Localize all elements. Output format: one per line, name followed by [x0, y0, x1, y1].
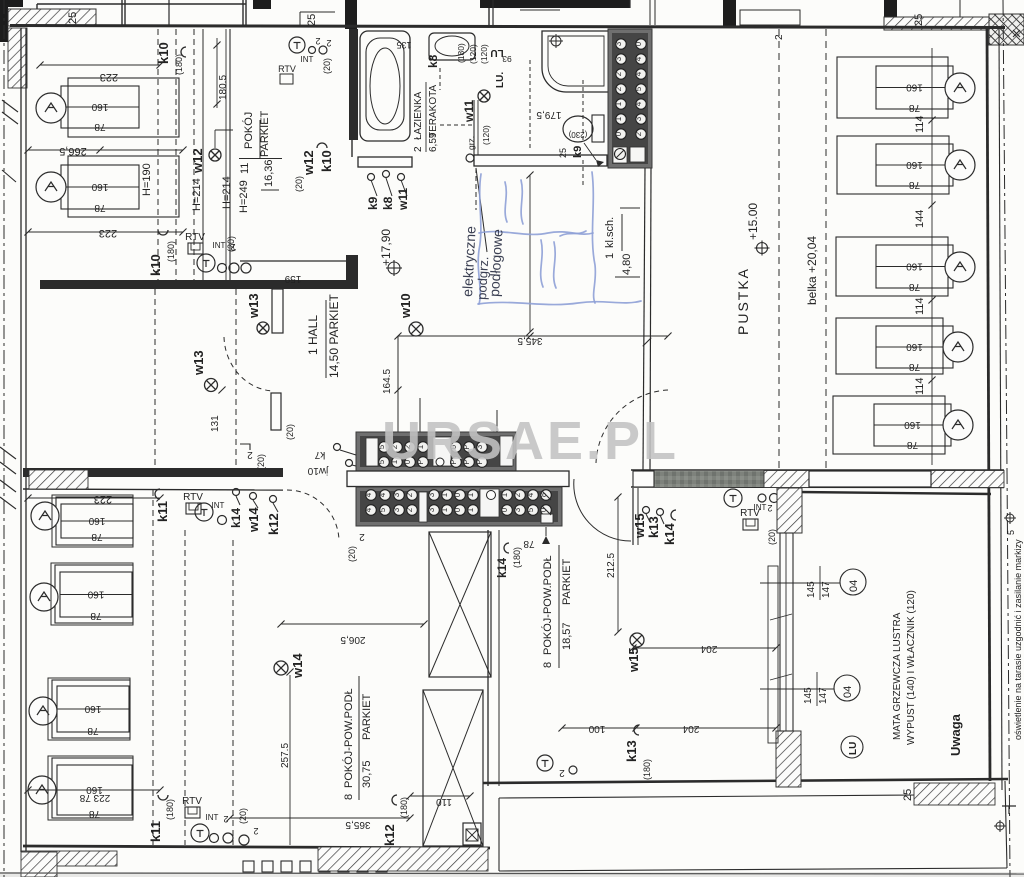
svg-text:LU: LU [848, 742, 859, 755]
svg-text:93: 93 [502, 54, 512, 64]
svg-text:k9: k9 [366, 196, 380, 210]
svg-text:4: 4 [364, 507, 373, 512]
svg-text:3: 3 [427, 492, 436, 497]
svg-text:RTV: RTV [185, 232, 205, 243]
svg-text:4: 4 [634, 56, 643, 61]
svg-text:131: 131 [210, 415, 221, 432]
svg-text:0: 0 [453, 492, 462, 497]
svg-text:1: 1 [466, 507, 475, 512]
svg-text:URSAE.PL: URSAE.PL [382, 411, 679, 471]
svg-text:223: 223 [99, 227, 117, 239]
svg-text:0: 0 [614, 131, 623, 136]
svg-text:159: 159 [284, 273, 301, 284]
svg-text:114: 114 [914, 115, 926, 133]
svg-text:(180): (180) [642, 759, 652, 780]
svg-text:3: 3 [392, 507, 401, 512]
svg-text:179,5: 179,5 [536, 109, 561, 120]
svg-text:w12: w12 [301, 150, 316, 176]
svg-text:k14: k14 [495, 558, 509, 578]
svg-text:5: 5 [634, 86, 643, 91]
svg-text:206,5: 206,5 [340, 634, 365, 645]
svg-text:100: 100 [588, 723, 605, 734]
svg-text:(230): (230) [568, 130, 587, 139]
svg-text:2: 2 [767, 503, 772, 513]
svg-text:78: 78 [909, 179, 921, 190]
svg-text:2: 2 [634, 131, 643, 136]
svg-text:1: 1 [440, 492, 449, 497]
svg-text:INT: INT [754, 503, 767, 512]
svg-text:RTV: RTV [182, 796, 202, 807]
svg-text:1: 1 [614, 101, 623, 106]
svg-text:160: 160 [906, 82, 923, 93]
svg-text:w11: w11 [396, 188, 410, 211]
svg-text:5: 5 [1006, 530, 1016, 535]
svg-text:110: 110 [436, 796, 452, 807]
svg-text:INT: INT [301, 55, 314, 64]
svg-text:135: 135 [396, 40, 411, 50]
svg-text:04: 04 [842, 686, 854, 698]
svg-text:kl.sch.: kl.sch. [604, 217, 616, 248]
svg-text:212.5: 212.5 [606, 553, 617, 578]
svg-text:w12: w12 [190, 148, 205, 174]
svg-text:30,75: 30,75 [361, 760, 373, 788]
svg-text:78: 78 [909, 361, 921, 372]
svg-text:2: 2 [247, 449, 253, 460]
svg-text:PARKIET: PARKIET [259, 110, 271, 157]
svg-text:k14: k14 [662, 523, 677, 545]
svg-text:180.5: 180.5 [218, 75, 229, 100]
svg-text:2: 2 [559, 767, 565, 778]
svg-text:(180): (180) [174, 54, 184, 75]
svg-text:H=214: H=214 [221, 176, 233, 209]
svg-text:ŁAZIENKA: ŁAZIENKA [413, 91, 424, 140]
svg-text:160: 160 [88, 515, 105, 526]
svg-text:belka +20,04: belka +20,04 [805, 236, 819, 305]
svg-text:78: 78 [94, 121, 106, 132]
svg-text:TERAKOTA: TERAKOTA [428, 85, 439, 138]
svg-text:+17,90: +17,90 [379, 229, 393, 266]
svg-text:LU: LU [490, 47, 503, 58]
svg-text:8: 8 [343, 794, 355, 800]
svg-text:k10: k10 [319, 150, 334, 172]
svg-text:78: 78 [89, 808, 101, 819]
svg-text:25: 25 [558, 148, 568, 158]
svg-text:0: 0 [453, 507, 462, 512]
svg-text:14,50 PARKIET: 14,50 PARKIET [327, 294, 341, 378]
svg-text:k8: k8 [426, 54, 440, 68]
svg-text:k13: k13 [624, 740, 639, 762]
svg-text:LU.: LU. [495, 72, 506, 88]
svg-text:(180): (180) [166, 241, 176, 262]
svg-text:160: 160 [906, 341, 923, 352]
svg-text:w15: w15 [626, 647, 641, 673]
svg-text:1: 1 [500, 492, 509, 497]
svg-text:0: 0 [500, 507, 509, 512]
svg-text:4: 4 [526, 492, 535, 497]
svg-text:PARKIET: PARKIET [361, 693, 373, 740]
svg-text:2: 2 [405, 507, 414, 512]
svg-text:78: 78 [907, 439, 919, 450]
svg-text:78: 78 [523, 538, 535, 549]
svg-text:114: 114 [914, 297, 926, 315]
svg-text:144: 144 [914, 210, 926, 228]
svg-text:4: 4 [634, 101, 643, 106]
svg-text:k11: k11 [155, 501, 170, 522]
svg-text:k8: k8 [381, 196, 395, 210]
svg-text:3: 3 [614, 41, 623, 46]
svg-text:k11: k11 [148, 821, 163, 842]
svg-text:(180): (180) [399, 797, 409, 818]
svg-text:oświetlenie na tarasie uzgodni: oświetlenie na tarasie uzgodnić i zasila… [1013, 539, 1023, 740]
svg-text:(120): (120) [468, 44, 478, 64]
svg-text:(180): (180) [512, 547, 522, 568]
svg-text:18,57: 18,57 [561, 622, 573, 650]
svg-text:3: 3 [634, 116, 643, 121]
svg-text:k9: k9 [572, 146, 584, 158]
svg-text:H=190: H=190 [141, 163, 153, 196]
svg-text:INT: INT [213, 241, 226, 250]
svg-text:2: 2 [359, 531, 365, 542]
svg-text:(120): (120) [481, 125, 491, 145]
svg-text:k12: k12 [382, 824, 397, 846]
svg-text:3: 3 [392, 492, 401, 497]
svg-text:0: 0 [634, 41, 643, 46]
svg-text:w10: w10 [398, 293, 413, 319]
svg-text:4: 4 [378, 492, 387, 497]
svg-text:RTV: RTV [183, 492, 203, 503]
svg-text:2: 2 [405, 492, 414, 497]
svg-text:(20): (20) [347, 546, 357, 562]
svg-text:2: 2 [614, 71, 623, 76]
svg-text:78: 78 [91, 531, 103, 542]
svg-text:RTV: RTV [278, 64, 296, 74]
svg-text:3: 3 [513, 507, 522, 512]
svg-text:2: 2 [326, 38, 331, 48]
svg-text:k12: k12 [266, 513, 281, 535]
svg-text:78: 78 [87, 725, 99, 736]
svg-text:2: 2 [513, 492, 522, 497]
svg-text:MATA GRZEWCZA LUSTRA: MATA GRZEWCZA LUSTRA [892, 612, 903, 740]
svg-text:4: 4 [634, 71, 643, 76]
svg-text:INT: INT [206, 813, 219, 822]
svg-text:w15: w15 [632, 513, 647, 539]
svg-text:k14: k14 [229, 508, 243, 528]
svg-text:1: 1 [614, 116, 623, 121]
svg-text:(20): (20) [294, 176, 304, 192]
svg-text:(20): (20) [226, 236, 236, 252]
svg-text:160: 160 [906, 159, 923, 170]
svg-text:257.5: 257.5 [280, 743, 291, 768]
svg-text:(20): (20) [256, 454, 266, 470]
svg-text:11: 11 [239, 163, 251, 174]
svg-text:4: 4 [364, 492, 373, 497]
svg-text:223 78: 223 78 [79, 792, 110, 803]
svg-text:365,5: 365,5 [345, 819, 370, 830]
svg-text:k10: k10 [156, 42, 171, 64]
svg-text:25: 25 [67, 12, 79, 24]
svg-text:204: 204 [682, 723, 699, 734]
svg-text:PARKIET: PARKIET [561, 558, 573, 605]
svg-text:(20): (20) [285, 424, 295, 440]
svg-text:78: 78 [909, 102, 921, 113]
svg-text:78: 78 [909, 281, 921, 292]
svg-text:5: 5 [378, 507, 387, 512]
svg-text:2: 2 [223, 814, 228, 824]
svg-text:160: 160 [906, 261, 923, 272]
svg-text:25: 25 [306, 14, 318, 26]
svg-text:k7: k7 [314, 449, 325, 460]
svg-text:2: 2 [315, 36, 320, 46]
svg-text:k10: k10 [148, 254, 163, 276]
svg-text:160: 160 [84, 703, 101, 714]
svg-text:WYPUST (140) I WŁACZNIK (120): WYPUST (140) I WŁACZNIK (120) [906, 590, 917, 745]
svg-text:(120): (120) [479, 44, 489, 64]
svg-text:04: 04 [848, 580, 860, 592]
svg-text:266,5: 266,5 [59, 145, 87, 157]
svg-text:(180): (180) [165, 799, 175, 820]
svg-text:223: 223 [100, 71, 118, 83]
svg-text:1: 1 [466, 492, 475, 497]
svg-text:2: 2 [614, 86, 623, 91]
svg-text:w13: w13 [191, 350, 206, 376]
svg-text:INT: INT [212, 501, 225, 510]
svg-text:160: 160 [87, 589, 104, 600]
svg-text:POKÓJ-POW.PODŁ: POKÓJ-POW.PODŁ [541, 555, 554, 655]
svg-text:16,36: 16,36 [263, 159, 275, 187]
svg-text:(180): (180) [456, 43, 466, 63]
svg-text:w13: w13 [246, 293, 261, 319]
svg-text:H=249: H=249 [238, 180, 250, 213]
svg-text:POKÓJ-POW.PODŁ: POKÓJ-POW.PODŁ [342, 688, 355, 788]
svg-text:2: 2 [413, 146, 424, 152]
svg-text:2: 2 [774, 34, 785, 40]
svg-text:164.5: 164.5 [382, 369, 393, 394]
svg-text:1: 1 [604, 253, 616, 259]
svg-text:8: 8 [542, 662, 554, 668]
svg-text:4,80: 4,80 [621, 254, 633, 275]
svg-text:jw10: jw10 [307, 465, 329, 476]
svg-text:3: 3 [427, 507, 436, 512]
svg-text:160: 160 [91, 181, 108, 192]
svg-text:78: 78 [90, 610, 102, 621]
svg-text:2: 2 [253, 826, 258, 836]
svg-text:160: 160 [91, 101, 108, 112]
svg-text:160: 160 [904, 419, 921, 430]
svg-text:204: 204 [700, 643, 717, 654]
svg-text:H=214: H=214 [191, 178, 203, 211]
svg-text:(20): (20) [322, 58, 332, 74]
svg-text:PUSTKA: PUSTKA [735, 267, 751, 335]
svg-text:w14: w14 [246, 507, 261, 533]
svg-text:Uwaga: Uwaga [948, 713, 963, 756]
svg-text:3: 3 [614, 56, 623, 61]
svg-text:25: 25 [913, 14, 925, 26]
svg-text:1 HALL: 1 HALL [306, 315, 320, 355]
svg-text:5: 5 [526, 507, 535, 512]
svg-text:(20): (20) [238, 808, 248, 824]
svg-text:(20): (20) [767, 529, 777, 545]
svg-text:25: 25 [902, 789, 914, 801]
svg-text:78: 78 [94, 202, 106, 213]
svg-text:1: 1 [440, 507, 449, 512]
svg-text:114: 114 [914, 377, 926, 395]
svg-text:+15.00: +15.00 [746, 203, 760, 240]
svg-text:w14: w14 [290, 653, 305, 679]
svg-text:POKÓJ: POKÓJ [242, 112, 255, 149]
